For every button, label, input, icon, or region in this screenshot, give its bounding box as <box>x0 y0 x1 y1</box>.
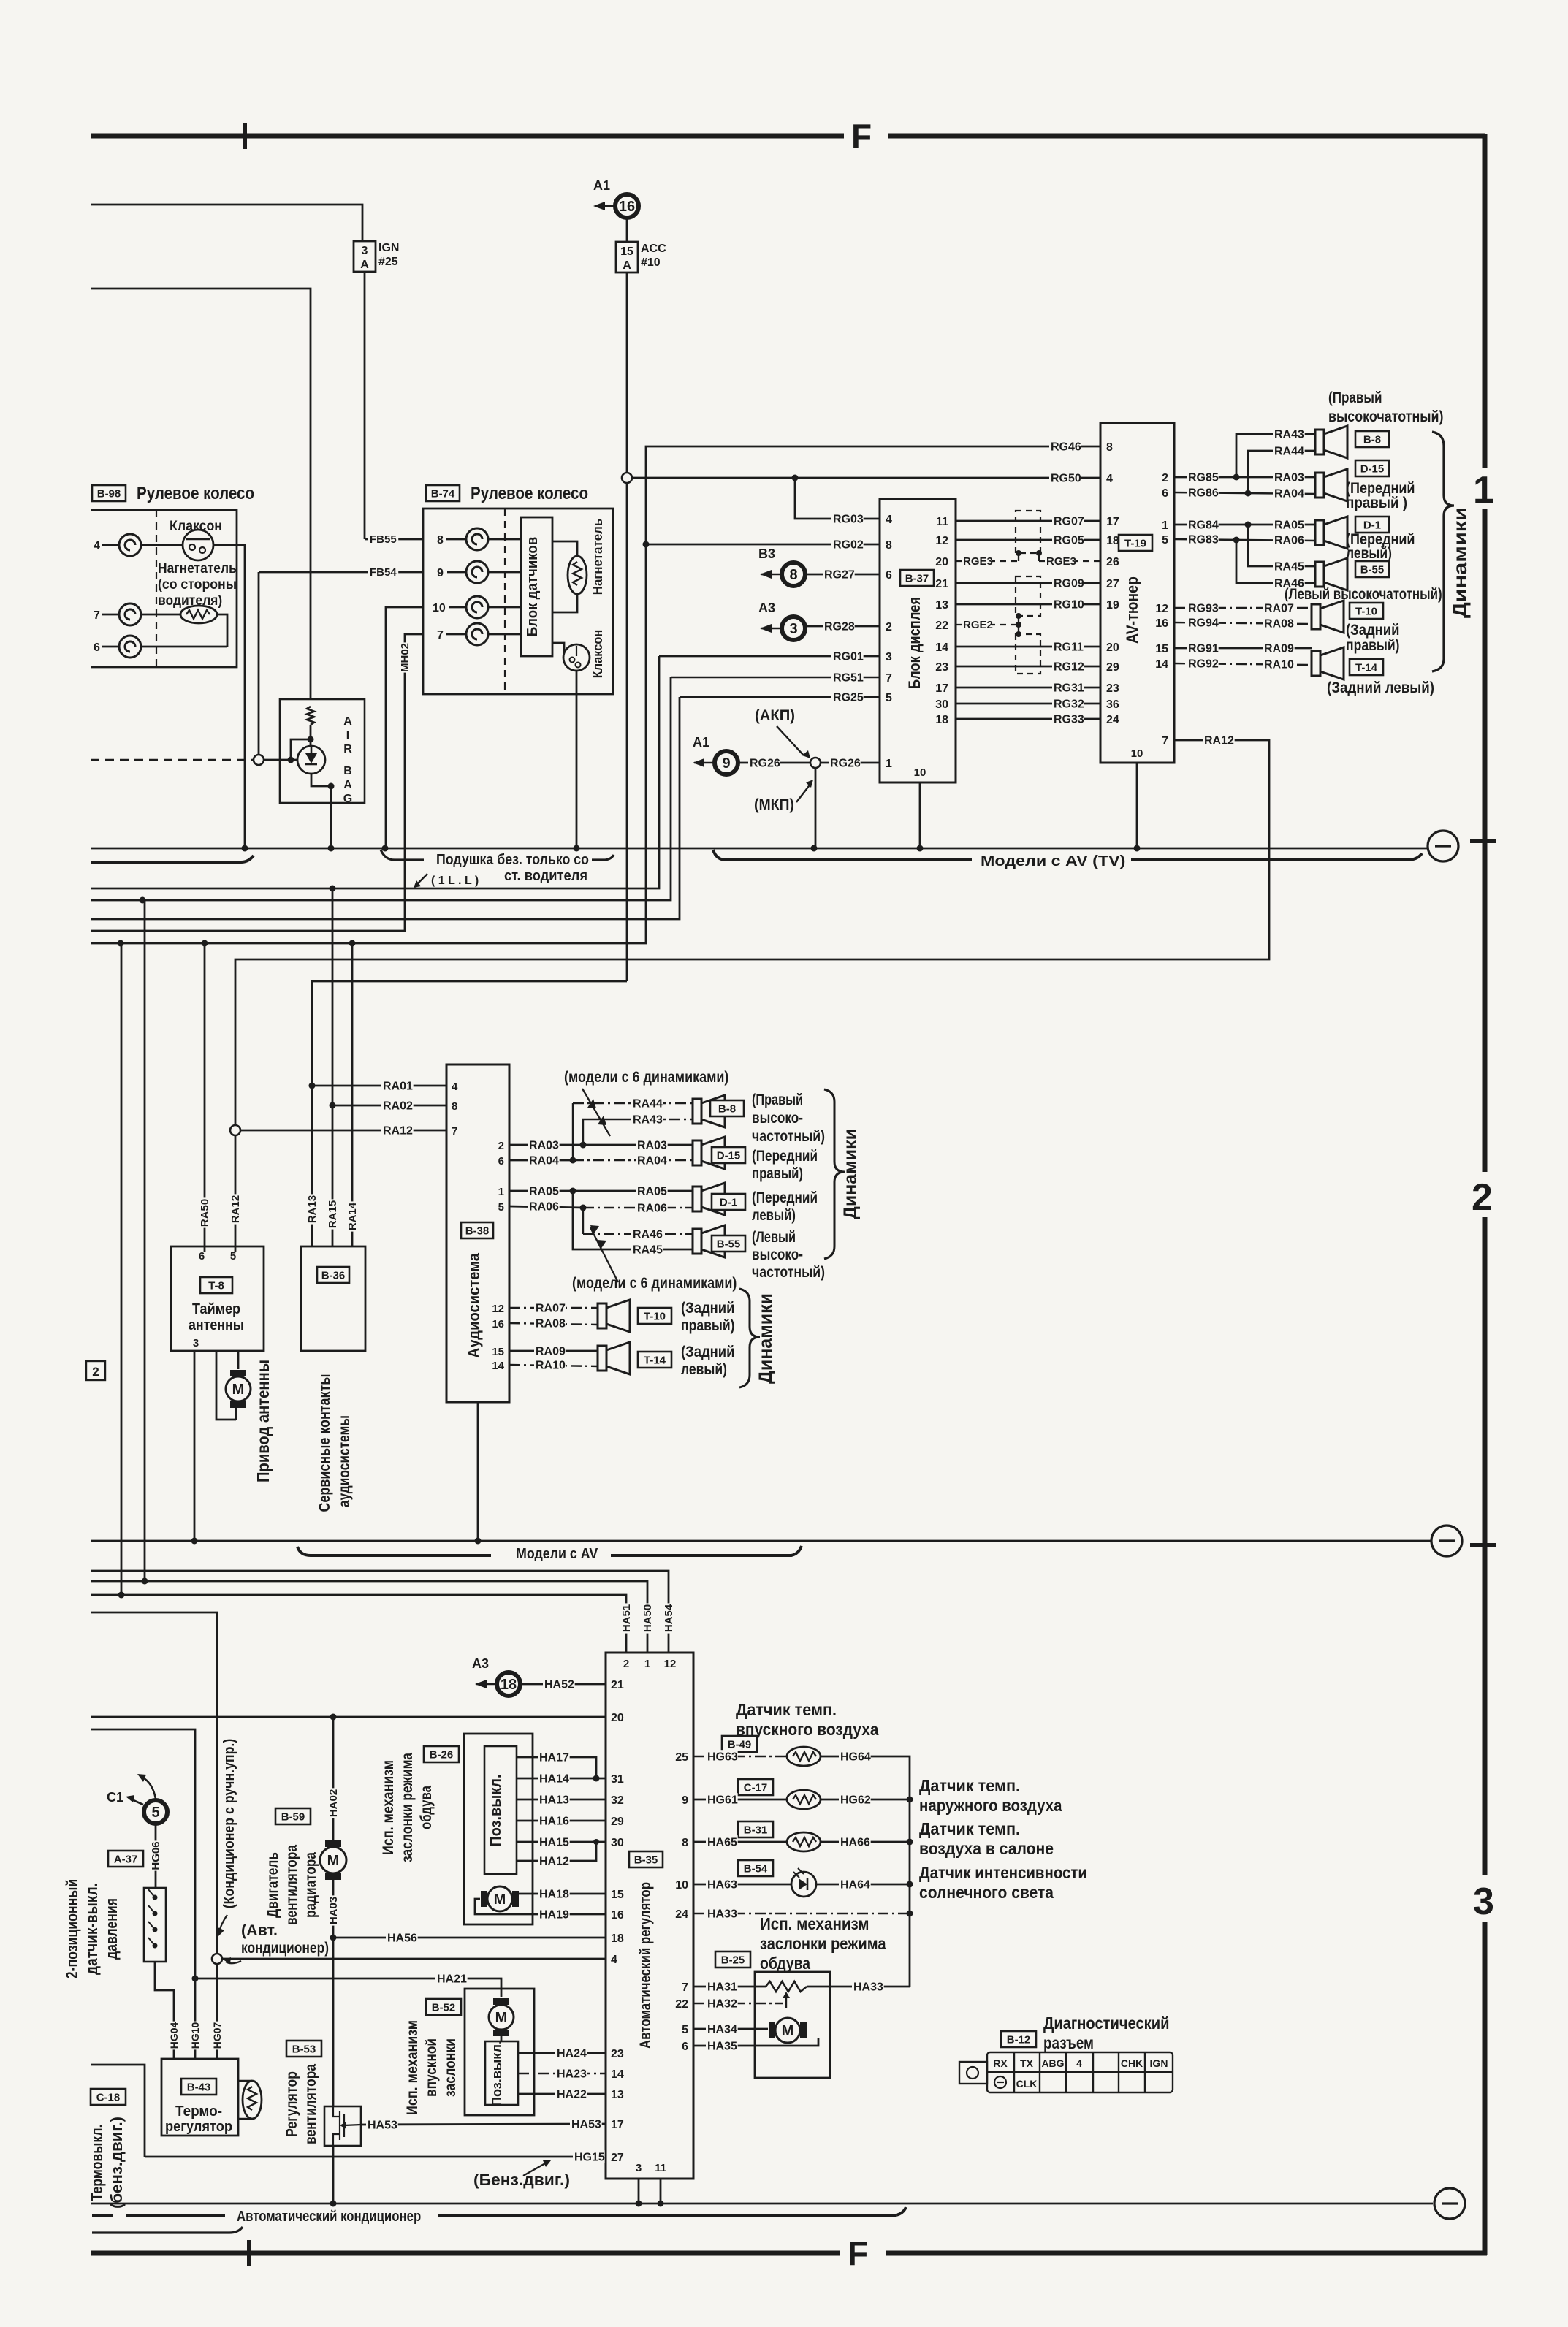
svg-text:D-1: D-1 <box>1363 519 1381 531</box>
arrow to manual AC wire <box>219 1915 227 1932</box>
connector arrow A3 circle 18 <box>472 1656 520 1696</box>
label HA34 <box>706 2022 738 2035</box>
wire HA51 <box>91 1595 626 1653</box>
wire RG28 to pin 2 <box>805 625 880 628</box>
speaker left tweeter <box>1315 558 1347 590</box>
svg-text:Нагнетатель: Нагнетатель <box>590 519 605 595</box>
label HA14 <box>538 1772 570 1785</box>
labels RA03 mid <box>528 1138 560 1151</box>
svg-text:24: 24 <box>1106 714 1119 726</box>
svg-text:B-43: B-43 <box>187 2081 211 2093</box>
svg-text:HA54: HA54 <box>663 1604 675 1632</box>
svg-text:Двигатель: Двигатель <box>264 1852 281 1918</box>
coil pin 7 B-74 <box>466 623 488 645</box>
wire circle16 to ACC fuse <box>626 218 628 242</box>
svg-text:(Задний: (Задний <box>1346 622 1400 639</box>
speaker mid front left <box>693 1183 725 1215</box>
svg-text:4: 4 <box>1106 473 1113 485</box>
svg-text:RA05: RA05 <box>1274 519 1304 531</box>
svg-text:D-1: D-1 <box>720 1196 737 1208</box>
speaker mid right tweeter <box>693 1095 725 1127</box>
node HA64 <box>907 1881 913 1888</box>
motor B-26 <box>481 1886 519 1911</box>
svg-text:29: 29 <box>1106 661 1119 674</box>
wire RG26 to display pin 1 <box>821 762 880 764</box>
wire horn B-74 down to bus <box>576 671 578 848</box>
wire resistor loop to pin6 line <box>217 614 227 647</box>
mosfet symbol B-53 <box>333 2106 361 2146</box>
svg-text:давления: давления <box>102 1898 121 1960</box>
svg-text:HA56: HA56 <box>387 1932 417 1944</box>
svg-text:10: 10 <box>914 766 926 779</box>
svg-text:RA06: RA06 <box>1274 534 1304 546</box>
svg-text:8: 8 <box>437 534 444 546</box>
wire AV pin10 to bus <box>1136 763 1138 848</box>
svg-text:Датчик интенсивности: Датчик интенсивности <box>919 1863 1087 1882</box>
wire RG27 to pin 6 <box>805 574 880 576</box>
svg-text:RA15: RA15 <box>327 1200 339 1228</box>
svg-text:B-49: B-49 <box>728 1738 752 1751</box>
wire HA15 <box>517 1841 606 1843</box>
svg-text:левый): левый) <box>681 1361 727 1378</box>
speaker mid front right <box>693 1137 725 1169</box>
right border <box>1483 134 1488 468</box>
connector label B-43 <box>181 2079 216 2095</box>
wire RA04 mid <box>509 1159 573 1162</box>
svg-text:B-37: B-37 <box>905 572 929 584</box>
label HG62 <box>839 1793 871 1806</box>
speaker mid left tweeter <box>693 1225 725 1257</box>
svg-text:15: 15 <box>1155 643 1168 655</box>
svg-text:A: A <box>623 259 631 272</box>
svg-text:B-53: B-53 <box>292 2043 316 2055</box>
svg-text:HA53: HA53 <box>368 2119 397 2131</box>
wire RA12 to audio pin 7 <box>240 1130 446 1132</box>
svg-text:Термовыкл.: Термовыкл. <box>88 2125 106 2201</box>
wire HG07 below circle <box>216 1964 218 2059</box>
ground symbol 2 <box>1431 1526 1462 1556</box>
svg-text:RG93: RG93 <box>1188 602 1219 614</box>
wire B-35 pins 3 11 to bus <box>638 2179 640 2204</box>
coil pin 9 B-74 <box>466 561 488 583</box>
label RA44 <box>1273 444 1305 457</box>
svg-text:Сервисные контакты: Сервисные контакты <box>316 1374 333 1512</box>
svg-text:R: R <box>343 743 352 755</box>
svg-text:B-98: B-98 <box>97 487 121 500</box>
speaker rear right <box>1312 601 1344 633</box>
svg-text:RG50: RG50 <box>1051 472 1081 484</box>
svg-text:HG63: HG63 <box>707 1751 738 1763</box>
node HA21 tee <box>192 1976 199 1982</box>
svg-text:3: 3 <box>362 245 368 257</box>
label HG15 <box>573 2150 605 2163</box>
svg-text:14: 14 <box>611 2068 624 2081</box>
wire FB54 riser down to open circle <box>258 572 260 755</box>
speaker mid rear right <box>598 1300 630 1332</box>
svg-text:аудиосистемы: аудиосистемы <box>336 1415 353 1507</box>
svg-text:Модели с AV (TV): Модели с AV (TV) <box>981 853 1125 869</box>
node RA12 open circle <box>230 1125 240 1135</box>
svg-text:RG10: RG10 <box>1054 598 1084 611</box>
svg-text:6: 6 <box>886 569 892 582</box>
wire RG33 <box>956 718 1100 720</box>
label HA33 pin24 <box>706 1907 738 1920</box>
svg-text:2: 2 <box>92 1365 99 1379</box>
svg-text:1: 1 <box>1162 519 1168 532</box>
svg-text:8: 8 <box>452 1100 457 1113</box>
wire motor to switch B-52 <box>501 2036 503 2041</box>
svg-text:B-38: B-38 <box>465 1225 490 1237</box>
svg-text:11: 11 <box>655 2162 666 2174</box>
node HA02 tee <box>330 1714 337 1721</box>
connector label T-14 <box>1350 659 1383 675</box>
svg-text:RA10: RA10 <box>536 1359 566 1371</box>
wire feed to AIR BAG from left <box>91 289 311 699</box>
svg-text:7: 7 <box>94 609 100 622</box>
svg-text:18: 18 <box>1106 535 1119 547</box>
svg-text:радиатора: радиатора <box>302 1852 319 1918</box>
label RA03 right mid <box>636 1138 668 1151</box>
labels RG91 RA09 <box>1187 641 1219 655</box>
svg-text:Рулевое колесо: Рулевое колесо <box>137 484 254 503</box>
bracket right of label <box>438 2214 896 2217</box>
svg-text:HA31: HA31 <box>707 1981 737 1993</box>
connector label B-55 mid <box>712 1235 745 1252</box>
svg-text:RA12: RA12 <box>383 1124 413 1137</box>
wire dashed from left edge to airbag circle node <box>91 759 254 761</box>
wire open circle to SCR anode <box>264 759 297 761</box>
svg-text:(Правый: (Правый <box>752 1092 803 1108</box>
node jog RA46 <box>1233 537 1240 544</box>
svg-text:HA03: HA03 <box>327 1897 340 1924</box>
svg-text:Исп. механизм: Исп. механизм <box>380 1760 397 1855</box>
svg-text:RA06: RA06 <box>637 1202 667 1214</box>
label HA33 right <box>852 1980 884 1993</box>
svg-text:F: F <box>851 117 872 155</box>
svg-text:RG94: RG94 <box>1188 617 1219 629</box>
wire HA66 <box>821 1841 910 1843</box>
coil pin 8 B-74 <box>466 528 488 550</box>
wire RG10 <box>956 603 1100 606</box>
connector arrow B3 circle 8 <box>758 546 805 586</box>
wire RG12 <box>956 666 1100 668</box>
label HA66 <box>839 1835 871 1848</box>
nodes on bus 1291 <box>118 940 124 947</box>
svg-text:впускной: впускной <box>423 2038 440 2097</box>
label HA64 <box>839 1878 871 1891</box>
shield RGE2 stubs <box>1018 616 1019 634</box>
connector label B-74 <box>426 485 460 501</box>
labels RA05 mid <box>528 1184 560 1197</box>
wire HA50 <box>91 1581 647 1653</box>
bus line RG51 return <box>91 677 671 900</box>
wire HA52 <box>520 1683 606 1686</box>
svg-text:RA03: RA03 <box>637 1139 667 1151</box>
svg-text:31: 31 <box>611 1773 624 1786</box>
wire HA32 <box>693 2003 783 2004</box>
svg-text:A1: A1 <box>593 178 610 193</box>
svg-text:HA16: HA16 <box>539 1815 569 1827</box>
svg-text:26: 26 <box>1106 556 1119 568</box>
label MH02 vertical <box>399 642 411 672</box>
label RG11 <box>1052 640 1084 653</box>
label RG28 <box>823 620 855 633</box>
wire RG11 <box>956 646 1100 648</box>
wire RA01 to audio pin 4 <box>312 1085 446 1087</box>
label HA24 <box>555 2046 587 2060</box>
svg-text:Поз.выкл.: Поз.выкл. <box>490 2041 504 2106</box>
labels RA13 RA15 RA14 vertical <box>306 1194 319 1224</box>
svg-text:21: 21 <box>611 1679 624 1691</box>
junction dots on bus <box>242 845 248 852</box>
horn switch B-98 <box>183 530 213 560</box>
wire A-37 to HG04 <box>155 1962 174 2059</box>
connector label B-8 mid <box>710 1100 744 1116</box>
label HA35 <box>706 2039 738 2052</box>
label RG07 <box>1052 514 1084 528</box>
box Блок датчиков <box>521 517 552 656</box>
horn switch B-74 <box>563 644 590 671</box>
wire antenna motor top feed <box>237 1351 240 1369</box>
coil pin 7 <box>119 603 141 625</box>
svg-text:18: 18 <box>611 1932 624 1945</box>
wire B-53 source to bus <box>332 2146 335 2204</box>
svg-text:10: 10 <box>675 1879 688 1892</box>
wire HA02 <box>332 1717 335 1840</box>
label RA12 vertical <box>229 1194 242 1224</box>
svg-text:(модели с 6 динамиками): (модели с 6 динамиками) <box>564 1069 728 1086</box>
svg-text:RA03: RA03 <box>529 1139 559 1151</box>
svg-text:5: 5 <box>230 1250 236 1262</box>
label HA23 <box>555 2067 587 2080</box>
svg-text:(Авт.: (Авт. <box>241 1922 278 1939</box>
svg-text:B-12: B-12 <box>1007 2033 1031 2046</box>
wire RA46 jog <box>1236 540 1315 583</box>
wire RG02 to display pin 8 <box>646 544 880 546</box>
svg-text:датчик-выкл.: датчик-выкл. <box>83 1883 101 1975</box>
svg-text:13: 13 <box>611 2089 624 2101</box>
svg-text:6: 6 <box>1162 487 1168 500</box>
svg-text:HA52: HA52 <box>544 1678 574 1691</box>
wire RA44 jog <box>1248 451 1315 493</box>
svg-text:Датчик темп.: Датчик темп. <box>919 1776 1020 1795</box>
wire HA03 motor down <box>332 1880 335 2106</box>
svg-text:6: 6 <box>199 1250 205 1262</box>
svg-text:RG26: RG26 <box>830 757 861 769</box>
label HA54 vertical <box>663 1603 675 1633</box>
svg-text:18: 18 <box>501 1677 517 1693</box>
speaker rear left <box>1312 647 1344 679</box>
wire HA12 <box>517 1842 596 1861</box>
svg-text:I: I <box>346 729 349 742</box>
svg-text:регулятор: регулятор <box>165 2119 232 2135</box>
node HA33 <box>907 1911 913 1917</box>
bus Подушка line <box>91 848 1428 850</box>
wire HG62 <box>821 1799 910 1801</box>
label HG64 <box>839 1750 871 1763</box>
svg-text:RA09: RA09 <box>1264 642 1294 655</box>
resistor in AIR BAG <box>307 707 314 725</box>
node RA04 tee mid <box>570 1157 576 1164</box>
svg-text:A3: A3 <box>758 601 775 615</box>
label RA07 mid <box>534 1301 566 1314</box>
wire SCR cathode to bus <box>311 774 331 848</box>
wire RA46 jog mid <box>582 1208 584 1234</box>
svg-text:HA64: HA64 <box>840 1878 870 1891</box>
label HG63 <box>706 1750 738 1763</box>
resistor Нагнетатель B-74 <box>568 556 587 594</box>
label HA52 <box>543 1677 575 1691</box>
label RG12 <box>1052 660 1084 673</box>
wire RG86 RA04 <box>1174 492 1315 494</box>
svg-text:4: 4 <box>886 514 892 526</box>
svg-text:RG46: RG46 <box>1051 441 1081 453</box>
sensor sun intensity photodiode <box>791 1868 816 1897</box>
svg-text:36: 36 <box>1106 698 1119 711</box>
label HA32 <box>706 1997 738 2010</box>
svg-text:MH02: MH02 <box>399 643 411 672</box>
resistor B-43 <box>243 2081 262 2119</box>
label FB55 <box>368 533 398 546</box>
node RA03 tee mid <box>580 1142 587 1149</box>
node RA05 tee mid <box>570 1188 576 1195</box>
svg-text:5: 5 <box>682 2024 688 2036</box>
svg-text:RA06: RA06 <box>529 1200 559 1213</box>
svg-text:Аудиосистема: Аудиосистема <box>465 1252 483 1358</box>
coil pin 6 <box>119 636 141 658</box>
svg-text:8: 8 <box>886 539 892 552</box>
wire RA45 jog mid <box>573 1191 693 1249</box>
wire riser RA15 <box>332 888 334 1246</box>
svg-text:14: 14 <box>1155 658 1168 671</box>
svg-text:RG27: RG27 <box>824 568 855 581</box>
unit B-36 box <box>301 1246 365 1351</box>
bracket small line under <box>92 2227 243 2233</box>
svg-text:RG32: RG32 <box>1054 698 1084 710</box>
unit B-26 box <box>464 1734 533 1924</box>
wire HA53 <box>361 2124 606 2125</box>
svg-text:HA15: HA15 <box>539 1836 569 1848</box>
svg-text:(Задний: (Задний <box>681 1344 735 1360</box>
node HA51 riser <box>118 1592 125 1599</box>
svg-text:M: M <box>782 2023 794 2039</box>
wire RG92 RA10 <box>1174 663 1312 665</box>
svg-text:(Задний левый): (Задний левый) <box>1327 679 1434 696</box>
label RA43 mid <box>631 1113 663 1126</box>
wire RGE2 dashed <box>956 624 1019 625</box>
label RA02 <box>381 1099 414 1112</box>
labels RG85 RA03 <box>1187 471 1219 484</box>
svg-text:12: 12 <box>664 1658 677 1670</box>
wire HA23 <box>518 2073 606 2074</box>
label HA22 <box>555 2087 587 2101</box>
svg-text:ABG: ABG <box>1041 2057 1064 2069</box>
svg-text:RG86: RG86 <box>1188 487 1219 499</box>
svg-text:B: B <box>343 765 352 777</box>
svg-text:Привод антенны: Привод антенны <box>254 1360 273 1482</box>
connector arrow A3 circle 3 <box>758 601 805 640</box>
svg-text:B-8: B-8 <box>718 1102 736 1115</box>
svg-text:HA02: HA02 <box>327 1789 340 1817</box>
svg-text:16: 16 <box>1155 617 1168 630</box>
wire HA64 <box>816 1884 910 1886</box>
wire IGN feed from left <box>91 205 362 241</box>
svg-text:IGN: IGN <box>1150 2057 1168 2069</box>
svg-text:HA19: HA19 <box>539 1908 569 1921</box>
svg-text:RA04: RA04 <box>637 1154 667 1167</box>
svg-text:22: 22 <box>935 620 948 632</box>
svg-text:HA51: HA51 <box>620 1604 633 1632</box>
svg-text:HA50: HA50 <box>642 1604 654 1632</box>
svg-text:Датчик темп.: Датчик темп. <box>919 1819 1020 1838</box>
svg-text:заслонки режима: заслонки режима <box>399 1753 416 1862</box>
svg-text:RG01: RG01 <box>833 650 864 663</box>
label RG01 <box>831 650 864 663</box>
svg-text:A: A <box>343 779 352 791</box>
svg-text:RA03: RA03 <box>1274 471 1304 484</box>
svg-text:9: 9 <box>437 567 444 579</box>
svg-text:RA13: RA13 <box>306 1195 319 1223</box>
bus line RG01 return <box>91 656 659 888</box>
svg-text:CHK: CHK <box>1121 2057 1143 2069</box>
svg-text:HA14: HA14 <box>539 1772 569 1785</box>
wire HA22 <box>518 2093 606 2095</box>
svg-text:B-55: B-55 <box>1360 563 1385 576</box>
wire RA02 to audio pin 8 <box>332 1105 446 1107</box>
wire RG31 <box>956 687 1100 689</box>
svg-text:солнечного света: солнечного света <box>919 1883 1054 1902</box>
wire antenna motor left loop <box>216 1351 236 1420</box>
svg-text:T-10: T-10 <box>644 1310 666 1322</box>
svg-text:B-55: B-55 <box>717 1238 741 1250</box>
svg-text:B-26: B-26 <box>430 1748 454 1761</box>
svg-text:Динамики: Динамики <box>756 1293 776 1384</box>
svg-text:RA08: RA08 <box>536 1317 566 1330</box>
svg-text:23: 23 <box>935 661 948 674</box>
svg-text:(бенз.двиг.): (бенз.двиг.) <box>107 2117 126 2209</box>
wire FB55 to pin 8 <box>365 538 423 541</box>
node HA56 tee <box>330 1935 337 1941</box>
svg-text:(модели с 6 динамиками): (модели с 6 динамиками) <box>572 1275 737 1292</box>
B-74 box <box>423 509 613 694</box>
svg-text:RGE3: RGE3 <box>1046 555 1076 568</box>
svg-text:C-17: C-17 <box>744 1781 768 1794</box>
connector label T-19 <box>1119 535 1152 551</box>
svg-text:3: 3 <box>789 621 797 637</box>
svg-text:RG31: RG31 <box>1054 682 1084 694</box>
svg-text:RA04: RA04 <box>1274 487 1304 500</box>
svg-text:B-35: B-35 <box>634 1854 658 1866</box>
svg-text:#25: #25 <box>378 256 398 268</box>
svg-text:RA14: RA14 <box>346 1202 359 1230</box>
svg-text:16: 16 <box>492 1318 504 1330</box>
connector label D-1 <box>1355 517 1389 533</box>
connector label B-37 <box>900 570 934 586</box>
wire RG83 RA06 <box>1174 539 1315 541</box>
labels RG93 RA07 <box>1187 601 1219 614</box>
node anode <box>288 757 294 763</box>
label RG26 second <box>829 756 861 769</box>
svg-text:RA05: RA05 <box>529 1185 559 1197</box>
svg-text:HA17: HA17 <box>539 1751 569 1764</box>
svg-text:Модели с AV: Модели с AV <box>516 1546 598 1562</box>
svg-text:A: A <box>343 715 352 728</box>
connector label B-52 <box>426 1999 461 2015</box>
connector label D-1 mid <box>712 1194 745 1210</box>
bracket left under bus <box>91 856 254 862</box>
svg-text:Блок дисплея: Блок дисплея <box>905 597 924 689</box>
node HA66 <box>907 1839 913 1846</box>
